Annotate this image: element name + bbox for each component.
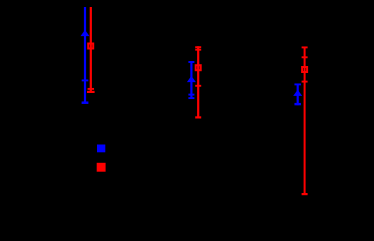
- legend red square marker: [97, 163, 106, 172]
- red series point 3 open square marker: [302, 67, 307, 72]
- legend blue square marker: [97, 145, 105, 153]
- red series point 2 open square marker: [196, 65, 201, 70]
- blue series point 3 triangle marker: [293, 90, 302, 96]
- blue series point 1 triangle marker: [81, 30, 90, 36]
- red series point 2 error bar: [195, 46, 201, 118]
- blue series point 2 error bar: [188, 61, 194, 99]
- red series point 1 open square marker: [88, 44, 93, 49]
- red series point 3 error bar: [302, 47, 308, 195]
- blue series point 3 error bar: [294, 84, 301, 106]
- blue series point 2 triangle marker: [187, 76, 196, 82]
- red series point 1 error bar: [87, 7, 95, 93]
- blue series point 1 error bar: [82, 7, 89, 104]
